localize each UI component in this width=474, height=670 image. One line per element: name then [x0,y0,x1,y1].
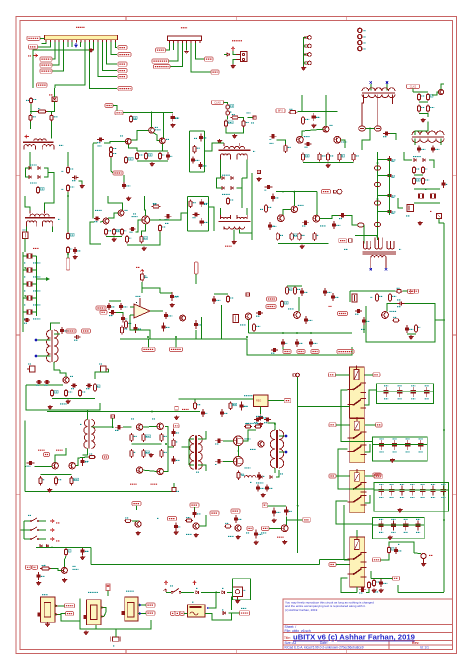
ground testpoint rail [301,66,305,70]
ground c108 [36,581,40,585]
transistor Q30 [323,126,329,132]
resistor R130 [375,293,382,302]
wire ifamp gnd bus2 [106,236,122,238]
text G1 [192,601,194,603]
wire pifilt rail l [188,131,190,172]
label box T1D [373,473,381,477]
wire J1 pin4 to ENC-B [52,42,59,65]
text c136 [244,405,248,407]
wire drv out [168,446,174,448]
wire t4b top stub [386,84,388,91]
transistor Q106b [235,525,241,531]
wire pwr gnd [233,60,236,65]
ground tx frame [409,335,413,339]
label box SPK [205,57,214,61]
wire 78 links [194,399,196,401]
label box P pa [262,503,268,507]
text R24 [153,203,156,205]
wire q32 link [341,140,345,148]
text CA-1 [406,215,410,217]
wire x10 x11 bot [414,202,440,204]
capacitor C106b [234,515,242,523]
resistor R26 [158,224,165,232]
text bpf3 [392,212,395,214]
label box Pot [247,526,253,530]
resistor R166 [372,579,379,587]
text IRF510 bot [245,467,251,469]
wire rl2 out lbl [365,424,376,426]
wire ant bus [389,542,414,553]
text D49 [222,587,224,589]
transistor Q32 [334,136,341,143]
wire t2 sec r [246,160,248,164]
polarity T11 b [285,451,287,453]
text Q32 2N3904 [341,141,347,143]
label box PTT right [118,75,127,79]
resistor R101 drv [172,439,178,448]
wire xtal3 link [23,283,27,285]
resistor R165 [387,546,394,554]
text pot val [246,532,250,534]
resistor R5 [36,186,44,194]
label AUDIO [181,27,187,29]
label box ifamp in [105,104,113,108]
text U6 name [126,590,134,592]
resistor R48 [124,156,133,164]
transistor Q105 [135,521,141,527]
resistor R35 [318,153,326,162]
label box TX2 [266,305,276,309]
resistor R24 [426,93,433,101]
wire u5 down [95,625,97,629]
label box u6 out2 [146,611,155,615]
svg-text:KiCad E.D.A. kicad 5.99.0-2-u: KiCad E.D.A. kicad 5.99.0-2-unknown-27be… [285,646,364,650]
capacitor C118 [121,315,128,323]
junction m15 [443,429,445,431]
resistor R122b [280,300,288,308]
text T10 [196,471,199,473]
wire t7 top [51,323,61,330]
power flag +5V [75,43,78,47]
wire J2 pin2 down [173,43,175,50]
transistor Q97 IRF510 top [234,436,244,446]
resistor R133 [414,324,420,333]
wire pa top rail [47,411,200,413]
wire q21 link [432,92,438,95]
capacitor C121 [256,311,263,316]
transistor Q20 BFW96 [142,216,150,224]
transformer T2 [219,143,251,160]
text q50 [269,225,275,227]
text Q20 [133,213,136,215]
wire bfo drop1 [301,95,303,112]
wire q52 out [320,215,339,218]
resistor R2 drv [37,109,48,114]
capacitor C124 [295,339,303,347]
transistor Q21 [438,89,443,94]
wire J1 pin10 long down [89,42,117,89]
resistor R106 [185,518,193,523]
label box g1 a [171,611,175,615]
wire pwr diode [224,54,227,56]
text 0.1 2kv [256,415,263,417]
resistor R135 [229,402,237,411]
text PR1 [23,229,26,231]
label box pd t5 [322,190,331,194]
text BAT85 cal [413,156,421,158]
wire 78 out [268,400,284,402]
capacitor CF6 [24,318,30,323]
resistor R93 pa [70,476,79,486]
junction p3 [188,446,190,448]
resistor R45 [112,228,120,236]
ground t3 [232,240,236,244]
text +12V lm [136,266,140,268]
wire bpf link0 [378,159,390,161]
wire tp4 stub [304,62,307,64]
ground pd [300,245,304,249]
ground pa det [261,493,265,497]
ground txn a [372,589,376,593]
capacitor C23 [193,212,200,217]
ground q105 [136,531,140,535]
diode D13 [222,187,224,190]
text U5 name [88,591,98,593]
text xf3 [33,290,41,292]
resistor R77 [396,288,403,293]
wire bridge1 down [48,173,54,197]
ground bank b [398,508,402,512]
wire u4 lbl2 [58,613,66,616]
junction m0 [293,191,295,193]
wire q31 to q30 [302,129,323,136]
wire t5 top links [415,122,428,136]
junction keyer [51,546,53,548]
wire clk1 down [195,274,197,284]
capacitor C99 hv2 [264,417,271,422]
sheet field text [285,625,311,633]
wire irf out right [243,430,256,441]
resistor R120 [285,286,292,295]
potentiometer RV1 [27,366,35,372]
capacitor C132 [405,325,414,333]
wire rx top wire [109,300,121,302]
wire pd left drop [251,173,253,240]
wire rx input row [26,384,63,386]
text C22 [204,203,207,205]
capacitor C96 [71,383,77,388]
svg-text:REG: REG [256,400,261,403]
diode D31 [270,476,272,479]
text LM386 [136,295,141,297]
text +12T sw [56,540,60,542]
wire bpf link3 [378,211,390,213]
ic U6 osc3 [122,597,138,621]
text xfv3 [24,290,26,292]
license note box [283,599,453,625]
inductor L33 [374,201,380,205]
text KT1 [157,517,159,519]
wire c51 link [123,175,125,182]
varactor MV1 box [437,214,442,219]
power arrow sw2 [50,528,54,531]
ground bank a [390,458,394,462]
wire long rail bottom [91,564,320,566]
wire rl1 nc down [341,390,373,441]
text Q11 [166,138,169,140]
wire t3 up l [219,208,221,215]
text R97 [242,474,245,476]
wire rl3 no out [365,495,370,503]
text Q12 [120,135,123,137]
wire irf mid [237,446,239,457]
potentiometer RV5 [233,315,239,323]
wire clk2 mid bus [419,101,428,103]
capacitor C66 [302,221,309,226]
text xf5 [33,318,41,320]
svg-text:Rev:: Rev: [412,641,419,645]
transistor Q51 [291,206,297,212]
wire tp2 stub [304,45,307,47]
wire c11 in [93,142,97,144]
text AGC2 [329,305,332,307]
resistor R33 [284,144,291,153]
resistor R37 [338,153,345,162]
transistor Q91 pa [52,463,58,469]
text bpf2 [392,196,395,198]
size date rev row [285,641,430,649]
wire tp down [297,377,299,407]
transistor Q92 pa [69,463,75,469]
mounting hole H2 text [364,36,366,38]
capacitor C96 g2 [215,459,223,464]
label box SPK/VOL-W [154,65,171,69]
connector BNC1 antenna [421,553,426,562]
capacitor C95 g1 [215,439,223,444]
text SW1 [170,585,173,587]
resistor R13 e2 [144,152,152,160]
wire pa bottom rail [25,490,174,492]
junction p5 [274,423,276,425]
text xf1 [33,262,41,264]
resistor R92 pa [54,476,61,486]
label box ENC-A [40,57,52,61]
label box PLD [303,518,311,522]
text T1 [58,218,60,220]
text 2N2866A b [56,449,63,451]
label box ENC-B [40,63,52,67]
capacitor C91 pa [80,457,88,466]
pin mark G1 [207,607,209,609]
resistor R46 [120,228,126,236]
net flag u5 top [106,584,110,591]
wire if col down [67,254,69,258]
wire rl4 in lbl [336,564,350,566]
resistor R108 [40,566,51,571]
label box CW2 [32,565,38,569]
wire q91 up [55,448,66,463]
svg-text:Date:: Date: [320,641,328,645]
mounting hole H3 [358,41,362,45]
wire bfo base1 [277,140,286,144]
wire x1 link [111,158,113,173]
text swr q [250,448,256,450]
wire lpf link [116,312,123,314]
label box LCD right1 [118,46,127,50]
title text uBITX v6 [284,633,415,642]
jumper box 9V-L [52,97,57,102]
wire pifilt top [189,130,204,132]
wire t4a top stub [370,84,372,91]
testpoint TP4 [305,61,311,65]
capacitor C64 [265,185,273,190]
crystal X10 [418,193,423,198]
text Q31 2N3904 [304,136,310,138]
wire bpf link1 [378,175,390,177]
wire rl3 out lbl [365,475,375,477]
wire xtal5 link2 [32,311,36,313]
capacitor C135 [220,409,228,417]
resistor R12 e1 [135,152,143,160]
resistor R95 [130,433,137,442]
wire t3 out [240,230,252,234]
capacitor C100 det1 [256,485,264,492]
text ant c [398,543,400,545]
ground c107 [80,556,84,560]
label box RX5 [329,563,336,567]
label box u4 out1 [65,604,75,608]
wire rl2 in [336,424,350,426]
capacitor C104 ptt3 [254,530,262,539]
power arrow 12v tr1 [25,135,29,138]
inductor L21 [358,223,364,227]
testpoint M1 circle [334,189,342,194]
capacitor C120 [300,288,308,296]
wire q12 to q10 [131,130,149,140]
wire t10 port link [173,483,175,488]
diode D7 [29,176,31,179]
resistor R102 bias1 [244,424,252,429]
wire t9 to drv [123,426,132,428]
capacitor C128 [331,293,339,301]
capacitor C98 hv1 [254,417,261,422]
text Q10 [155,126,158,128]
wire g1 top [209,605,216,608]
switch SW2 [24,527,46,531]
relay KT3 [348,469,367,513]
ground 78 port [174,416,178,420]
label box 3.3V [27,36,40,40]
junction p0 [87,411,89,413]
resistor R121 [293,286,300,295]
wire t4 leg right [392,95,394,105]
wire rx loop left [26,385,100,410]
capacitor C131 polar [397,301,405,306]
text 2N3904A d1 [130,483,137,485]
junction ifamp1 a [151,112,153,114]
svg-text:Id: 1/1: Id: 1/1 [420,646,429,650]
label box RX3 [132,502,141,506]
wire u6 lbl2 [141,613,146,615]
capacitor C105 [192,510,201,518]
text 2N3904 rx [60,403,67,405]
junction m8 [67,195,69,197]
capacitor C106 [174,523,181,531]
capacitor C26 [165,214,172,219]
wire ring join [365,128,374,130]
wire lm fb [130,315,150,339]
transistor Q98 IRF510 bottom [234,457,244,467]
capacitor C43 [94,216,100,221]
capacitor C109 ant [359,588,366,593]
wire lm v2 [200,317,202,339]
ground J2 [185,50,189,53]
resistor R47 [109,151,116,158]
text MV1 [430,210,432,212]
filter bank LPF A (4 caps) [377,384,434,404]
ground clk0 [232,134,236,138]
wire clk0 div2 [240,118,244,120]
polarity T4 b [385,268,387,270]
wire tx5 link [381,554,390,560]
text port bfo [251,122,254,124]
label box TX3 [411,289,419,293]
potentiometer RV2 [101,366,109,372]
power arrow lm386 12v [141,270,144,274]
wire q120 down [248,320,250,334]
diode D6 [38,167,40,170]
ground c40 [80,184,84,188]
junction p8 [151,411,153,413]
ground q20 [142,247,146,251]
transistor Q41 [118,210,124,216]
mixer diode ring D2 [375,126,382,131]
capacitor C13 [199,134,207,142]
text 2N2866A a [38,449,45,451]
wire t4 leg left [362,95,364,126]
wire t1 sec b [52,227,54,233]
wire tone right [363,325,365,333]
wire J2 pin3 to SPK A [169,43,179,61]
text TR1 [59,144,63,146]
resistor R100 [160,449,167,458]
diode D45 [40,545,42,548]
label box TX4 [190,503,199,507]
ground u4 [45,622,49,626]
text BAT85-BL [222,193,230,195]
filter bank LPF D (4 caps) [373,517,425,538]
text 10k bias [246,422,254,424]
text 1N4007 pa [256,482,264,484]
ground q104 [282,540,286,544]
transistor Q130 [382,312,389,319]
ground q106b [236,535,240,539]
capacitor C108 [36,572,45,580]
net port t10 [172,488,176,492]
resistor R81 [421,177,429,185]
connector K2 box [232,579,250,600]
wire ifamp1 e bus [137,150,168,152]
capacitor C165 [379,579,388,587]
capacitor C80 [441,180,448,188]
capacitor C119 [133,324,141,333]
text +5V [28,55,31,57]
label box SPK/VOL-A [152,59,169,63]
svg-text:uBITX v6 (c) Ashhar Farhan,: uBITX v6 (c) Ashhar Farhan, 2019 [293,633,415,642]
mounting hole H2 [358,35,362,39]
text q120 [240,324,246,326]
text q52 [320,225,326,227]
